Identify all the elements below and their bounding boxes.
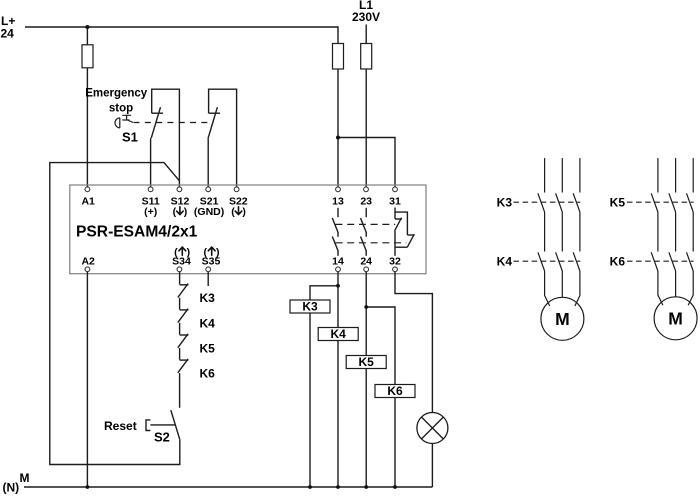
pushbutton S2 actuator [146, 420, 175, 431]
svg-text:S35: S35 [202, 256, 221, 268]
svg-text:M: M [555, 309, 570, 329]
right motor branch 2 (K5/K6) [651, 158, 697, 340]
feedback contact K5 (NC) [178, 334, 189, 360]
wire A1 drop from rail [86, 27, 88, 187]
phase wires to motor 1 [545, 271, 550, 306]
terminal S21 [206, 187, 211, 192]
wire branch 14 to coil K3 [310, 286, 338, 300]
wire branch to 31 [338, 138, 395, 187]
svg-text:S34: S34 [172, 256, 191, 268]
svg-text:): ) [184, 206, 188, 218]
wire S21 lead [207, 138, 209, 187]
phase wires to motor 2 [658, 271, 663, 305]
terminal S11 [148, 187, 153, 192]
svg-text:K3: K3 [497, 196, 513, 210]
svg-text:stop: stop [109, 103, 133, 115]
contactor contacts K6 (3 blades) [651, 252, 693, 271]
terminal labels bottom row [81, 247, 401, 268]
wire 32 to lamp [395, 272, 432, 413]
contactor coil K6 [375, 384, 415, 398]
linkage dashed K5 row [627, 201, 694, 203]
svg-text:K3: K3 [302, 300, 318, 314]
arrow up S35 [208, 247, 215, 255]
terminal 13 [336, 187, 341, 192]
svg-text:A2: A2 [81, 256, 95, 268]
linkage dashed K4 row [514, 260, 581, 262]
junction dot rail A2 [86, 485, 90, 489]
contactor contacts K4 (3 blades) [538, 252, 580, 271]
contactor contacts K3 (3 blades) [538, 193, 580, 212]
wire S12 reset-loop return (left long loop) [50, 163, 180, 465]
phase wires top group 1 [544, 158, 546, 192]
wire M (N) bottom rail [24, 486, 432, 488]
terminal 31 [393, 187, 398, 192]
svg-text:K3: K3 [200, 291, 216, 305]
relay contact 31-32 NC pair [395, 208, 415, 256]
svg-text:24: 24 [360, 256, 372, 268]
terminal 14 [336, 267, 341, 272]
wire 24 to coil K5 and bottom rail [365, 272, 367, 356]
label M (N) [3, 471, 30, 495]
label Emergency stop [85, 88, 148, 115]
svg-text:(N): (N) [3, 481, 20, 495]
terminal S34 [177, 267, 182, 272]
switch S1 contact 1 blade [151, 107, 160, 138]
right motor branch 1 (K3/K4) [538, 158, 584, 340]
svg-text:PSR-ESAM4/2x1: PSR-ESAM4/2x1 [76, 223, 198, 240]
phase wires mid group 2 [657, 212, 659, 252]
svg-text:K4: K4 [497, 254, 513, 268]
motor M1 [541, 297, 584, 340]
relay contact 23-24 upper [361, 208, 367, 237]
svg-text:31: 31 [389, 196, 401, 208]
junction dot rail K6 [393, 485, 397, 489]
svg-text:M: M [20, 471, 30, 485]
mechanical linkage dashed relay upper [336, 223, 396, 225]
svg-text:K5: K5 [359, 355, 375, 369]
svg-text:(: ( [231, 206, 235, 218]
node L1 230V label [352, 0, 380, 24]
contactor contacts K5 (3 blades) [651, 193, 693, 212]
switch S1 contact 2 (S21-S22) bridge [209, 89, 237, 187]
switch S1 contact 2 seat tick [209, 112, 220, 114]
svg-text:(+): (+) [144, 206, 157, 218]
wire A2 to bottom rail [86, 272, 88, 487]
contactor coil K4 [318, 327, 358, 341]
mechanical linkage dashed S1 [134, 122, 212, 124]
wire S11 lead [150, 138, 152, 187]
relay module PSR-ESAM4/2x1 body [70, 185, 426, 274]
svg-text:K4: K4 [331, 327, 347, 341]
svg-text:K4: K4 [200, 316, 216, 330]
wire S35 stub [207, 272, 209, 286]
junction dot at L+ rail / A1 [85, 25, 89, 29]
feedback contact K3 (NC) [178, 284, 189, 310]
svg-text:(GND): (GND) [194, 206, 224, 218]
fuse F3 (L1 branch) [361, 44, 372, 70]
svg-text:K5: K5 [610, 196, 626, 210]
svg-text:Reset: Reset [104, 419, 137, 433]
switch S1 contact 1 seat tick [152, 112, 163, 114]
junction dot rail K3 [308, 485, 312, 489]
feedback contact K4 (NC) [178, 309, 189, 335]
terminal A1 [85, 187, 90, 192]
pushbutton S2 reset blade [171, 410, 180, 440]
svg-text:23: 23 [360, 196, 372, 208]
terminal S22 [234, 187, 239, 192]
fuse F1 (A1 branch) [82, 45, 93, 68]
terminal 24 [364, 267, 369, 272]
switch S1 contact 1 (S11-S12) bridge [152, 89, 180, 187]
terminal S12 [177, 187, 182, 192]
svg-text:K6: K6 [387, 384, 403, 398]
motor M2 [654, 297, 697, 340]
svg-text:): ) [242, 206, 246, 218]
linkage dashed K6 row [627, 260, 694, 262]
svg-text:14: 14 [332, 256, 344, 268]
phase wires top group 2 [657, 158, 659, 192]
wire S34 chain feed [179, 272, 181, 285]
fuse F2 (13 branch) [333, 44, 344, 70]
svg-text:K5: K5 [200, 341, 216, 355]
feedback contact K6 (NC) [178, 359, 189, 408]
svg-text:K6: K6 [610, 255, 626, 269]
contactor coil K3 [290, 300, 330, 314]
wire L+ supply rail [25, 27, 338, 44]
junction dot rail K5 [364, 485, 368, 489]
wire 14 to coil K4 and bottom rail [337, 272, 339, 328]
svg-text:A1: A1 [81, 196, 95, 208]
junction dot 24/K6 branch [364, 305, 368, 309]
switch S1 contact 2 blade [208, 107, 217, 138]
junction dot 14/K3 branch [336, 284, 340, 288]
mechanical linkage dashed relay lower [336, 242, 407, 244]
relay contact 13-14 upper [332, 208, 338, 237]
terminal circles top row [85, 187, 397, 272]
arrow down S12 [177, 207, 242, 255]
relay contact 23-24 lower [361, 237, 367, 256]
wire L1 drop [365, 25, 367, 187]
svg-text:S2: S2 [154, 429, 170, 444]
arrow down S22 [235, 207, 242, 215]
terminal 23 [364, 187, 369, 192]
terminal A2 [85, 267, 90, 272]
terminal labels top row [81, 196, 401, 219]
svg-text:K6: K6 [200, 367, 216, 381]
junction dot rail K4 [336, 485, 340, 489]
wire 13 drop below fuse [337, 69, 339, 187]
node L+ 24V label [1, 14, 16, 41]
svg-text:S1: S1 [122, 130, 138, 145]
phase wires mid group 1 [544, 212, 546, 252]
svg-text:13: 13 [332, 196, 344, 208]
svg-text:Emergency: Emergency [85, 88, 148, 100]
svg-text:230V: 230V [352, 10, 380, 24]
terminal 32 [393, 267, 398, 272]
contactor coil K5 [346, 355, 386, 369]
svg-text:24: 24 [1, 26, 15, 40]
svg-text:(: ( [173, 206, 177, 218]
junction dot at 13 / 31 branch [336, 136, 340, 140]
wire branch 24 to coil K6 [366, 307, 395, 385]
indicator lamp [417, 413, 448, 444]
arrow up S34 [179, 247, 186, 255]
terminal S35 [206, 267, 211, 272]
emergency stop actuator S1 mushroom head [115, 115, 133, 128]
svg-text:M: M [668, 309, 683, 329]
svg-text:32: 32 [389, 256, 401, 268]
linkage dashed K3 row [514, 201, 581, 203]
relay contact 13-14 lower [332, 237, 338, 256]
